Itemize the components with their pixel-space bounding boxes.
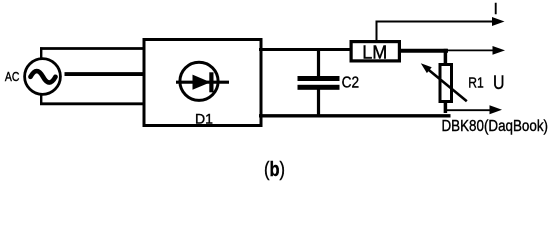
wire bottom left (AC to D1) (40, 102, 146, 105)
rectifier block D1 box (144, 40, 261, 126)
svg-text:(b): (b) (264, 159, 285, 181)
svg-text:LM: LM (362, 43, 387, 63)
arrowhead output (493, 46, 506, 55)
wire top right (D1 to LM) (259, 48, 351, 51)
capacitor C2 top plate (298, 76, 340, 81)
wire LM top stem (376, 22, 378, 41)
wire R1 bottom lead (444, 102, 448, 113)
wire middle left (AC to D1) (65, 72, 147, 76)
svg-text:DBK80(DaqBook): DBK80(DaqBook) (442, 118, 549, 135)
wire top left (AC to D1) (40, 47, 146, 50)
resistor R1 adjust arrow line (429, 70, 467, 102)
svg-text:AC: AC (5, 69, 20, 84)
svg-text:U: U (493, 73, 505, 94)
diode D1 triangle (193, 75, 211, 90)
arrowhead DBK80 (490, 105, 503, 114)
wire R1 top lead (444, 49, 448, 64)
svg-text:C2: C2 (342, 74, 360, 91)
wire bottom bus (D1 to R1) (259, 114, 451, 117)
wire output arrow (446, 49, 493, 51)
capacitor C2 bottom plate (298, 85, 340, 90)
resistor R1 body (440, 65, 452, 102)
wire current arrow I (376, 21, 493, 23)
wire voltage arrow to DBK80 (444, 109, 491, 111)
resistor R1 adjust arrowhead (421, 63, 432, 73)
diode D1 cathode bar (209, 72, 213, 92)
arrowhead I (492, 17, 505, 26)
svg-text:D1: D1 (195, 111, 213, 127)
wire LM output thick (399, 49, 448, 53)
svg-text:R1: R1 (468, 75, 484, 92)
AC source V1 circle (25, 59, 61, 95)
wire AC vertical stem (40, 47, 42, 105)
diode D1 horizontal lead (176, 81, 229, 84)
capacitor C2 bottom lead (317, 89, 320, 117)
svg-text:I: I (494, 1, 498, 18)
capacitor C2 top lead (317, 50, 320, 78)
AC source sine wave (31, 71, 56, 83)
LM block box (351, 42, 399, 61)
diode D1 circle (180, 62, 218, 100)
